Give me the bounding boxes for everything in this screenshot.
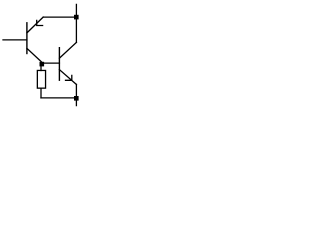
wire Q2 emitter vertical bbox=[75, 84, 77, 96]
wire bottom horizontal bbox=[41, 97, 76, 99]
wire top horizontal bbox=[43, 16, 76, 18]
transistor Q2 emitter lead bbox=[59, 70, 76, 85]
wire bottom stub below node bbox=[75, 101, 77, 106]
node junction bottom-right bbox=[74, 96, 79, 101]
resistor R1 top lead bbox=[40, 66, 42, 71]
resistor R1 bottom lead bbox=[40, 88, 42, 98]
wire top stub above node bbox=[75, 4, 77, 15]
transistor Q1 base bar bbox=[26, 23, 28, 54]
node junction at resistor top bbox=[40, 62, 45, 67]
transistor Q1 emitter arrow (PNP) bbox=[37, 20, 43, 25]
wire diagonal to Q2 collector bbox=[59, 42, 76, 58]
wire right vertical bbox=[75, 19, 77, 42]
transistor Q1 collector lead bbox=[27, 48, 42, 62]
transistor Q1 base wire bbox=[3, 39, 27, 41]
resistor R1 body bbox=[37, 70, 45, 88]
transistor Q2 emitter arrow (NPN) bbox=[66, 75, 72, 80]
transistor Q2 base bar bbox=[58, 48, 60, 80]
transistor Q1 emitter lead bbox=[27, 17, 43, 33]
node junction top-right bbox=[74, 15, 79, 20]
transistor Q2 base wire bbox=[42, 62, 60, 64]
